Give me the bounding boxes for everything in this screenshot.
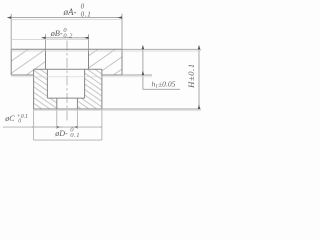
dim h1 line bbox=[142, 49, 144, 75]
dim C line extended left bbox=[3, 126, 57, 128]
bottom frame line bbox=[34, 139, 102, 141]
svg-text:0: 0 bbox=[81, 3, 85, 11]
dim D extension left bbox=[33, 109, 35, 140]
svg-text:øC: øC bbox=[4, 114, 15, 123]
svg-text:øB-: øB- bbox=[50, 29, 63, 38]
centerline bbox=[66, 41, 68, 123]
top face extension (H/h1) bbox=[122, 48, 201, 50]
hatch boss left block bbox=[34, 69, 57, 109]
svg-text:h1±0.05: h1±0.05 bbox=[152, 79, 176, 89]
scan ghost echoes bbox=[11, 18, 122, 20]
dim D line bbox=[34, 126, 102, 128]
boss right edge bbox=[101, 69, 103, 109]
svg-text:H±0.1: H±0.1 bbox=[186, 63, 196, 89]
bottom face bbox=[34, 108, 102, 110]
boss left edge bbox=[33, 69, 35, 109]
counterbore B bottom bbox=[34, 68, 102, 70]
flange bottom left segment bbox=[11, 74, 33, 76]
flange right edge bbox=[121, 49, 123, 75]
flange bottom extension (h1) bbox=[122, 74, 152, 76]
bottom face extension (H) bbox=[102, 108, 201, 110]
dim B extension right bbox=[88, 34, 90, 49]
dim A extension right bbox=[121, 14, 123, 50]
dim C arrows bbox=[57, 126, 64, 128]
dim A extension left bbox=[10, 14, 12, 50]
hole C left wall bbox=[56, 98, 58, 109]
hatch boss right block bbox=[77, 69, 102, 109]
svg-text:0: 0 bbox=[18, 119, 21, 125]
dim A line bbox=[11, 17, 122, 19]
dim B line bbox=[46, 37, 89, 39]
dim B extension left bbox=[45, 34, 47, 49]
dim C extension left bbox=[56, 109, 58, 129]
flange left edge bbox=[10, 49, 12, 75]
top face bbox=[11, 48, 122, 50]
svg-text:øA-: øA- bbox=[63, 7, 77, 17]
counterbore B left wall bbox=[45, 49, 47, 69]
hatch flange right block bbox=[89, 49, 123, 75]
cavity bottom bbox=[47, 97, 84, 99]
svg-text:0.1: 0.1 bbox=[81, 10, 92, 18]
dim C extension right bbox=[76, 109, 78, 129]
cavity right wall bbox=[84, 69, 86, 98]
dim D extension right bbox=[101, 109, 103, 140]
hatch flange left block bbox=[11, 49, 45, 75]
svg-text:0.1: 0.1 bbox=[70, 132, 80, 139]
cavity left wall bbox=[46, 69, 48, 98]
counterbore B right wall bbox=[88, 49, 90, 69]
dim h1 leader bbox=[142, 75, 144, 89]
hole C right wall bbox=[76, 98, 78, 109]
flange bottom right segment bbox=[102, 74, 122, 76]
svg-text:0.2: 0.2 bbox=[63, 33, 73, 40]
dim h1 shelf bbox=[143, 88, 180, 90]
dim H line bbox=[198, 49, 200, 109]
svg-text:øD-: øD- bbox=[54, 129, 68, 138]
